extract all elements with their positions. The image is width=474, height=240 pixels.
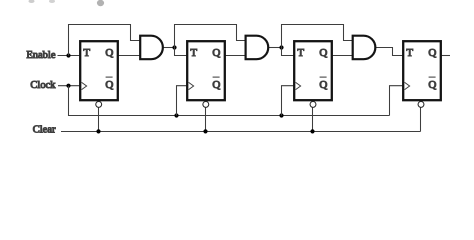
- AND gate G1: [140, 36, 163, 60]
- wire FF2 Q to G2 input B: [225, 55, 245, 57]
- wire Clear drop FF1: [98, 108, 100, 132]
- wire FF1 Q to G1 input B: [119, 55, 140, 57]
- node Clear junction FF1: [96, 129, 100, 133]
- svg-text:Q: Q: [428, 47, 436, 59]
- svg-text:T: T: [297, 47, 304, 59]
- wire FF4 Q output stub: [441, 55, 450, 57]
- svg-text:Q: Q: [105, 79, 113, 91]
- svg-text:T: T: [406, 47, 413, 59]
- T flip-flop FF1: [80, 41, 118, 107]
- node Clock bus junction FF2: [174, 113, 178, 117]
- wire Clock to FF1 clock pin: [58, 85, 80, 87]
- node G2 output junction: [279, 45, 283, 49]
- wire Clock bus drop: [69, 86, 390, 116]
- wire FF3 Q to G3 input B: [332, 55, 352, 57]
- svg-text:Q: Q: [212, 79, 220, 91]
- svg-text:Q: Q: [105, 47, 113, 59]
- wire G2 output: [268, 47, 281, 49]
- pin label Qbar FF2: [212, 77, 220, 91]
- wire Clear riser FF4: [420, 108, 422, 132]
- artifact smudge c: [97, 0, 104, 6]
- svg-text:Q: Q: [212, 47, 220, 59]
- artifact smudge b: [49, 0, 55, 3]
- wire Enable to FF1 pin T: [58, 55, 80, 57]
- wire Clear drop FF2: [205, 108, 207, 132]
- svg-text:Q: Q: [319, 47, 327, 59]
- svg-text:Clear: Clear: [33, 125, 56, 136]
- node Enable junction: [66, 53, 70, 57]
- AND gate G3: [353, 36, 376, 60]
- T flip-flop FF3: [294, 41, 332, 107]
- wire Clear drop FF3: [312, 108, 314, 132]
- wire Clear bus: [61, 131, 421, 133]
- node Clock bus junction FF3: [279, 113, 283, 117]
- svg-text:Enable: Enable: [26, 50, 55, 61]
- wire G3 output to FF4 pin T: [375, 48, 402, 56]
- AND gate G2: [246, 36, 269, 60]
- wire Enable over FF1 to G1 input A: [69, 25, 140, 56]
- svg-text:Q: Q: [319, 79, 327, 91]
- T flip-flop FF4: [403, 41, 441, 107]
- node Clock junction: [66, 84, 70, 88]
- pin label Qbar FF4: [428, 77, 436, 91]
- wire Clock riser to FF4 clock pin: [390, 86, 403, 116]
- T flip-flop FF2: [187, 41, 225, 107]
- pin label Qbar FF3: [319, 77, 327, 91]
- artifact smudge a: [29, 0, 35, 3]
- wire Clock riser to FF3 clock pin: [282, 86, 294, 116]
- svg-text:T: T: [190, 47, 197, 59]
- wire Clock riser to FF2 clock pin: [177, 86, 187, 116]
- wire G1 output over FF2 to G2 input A: [175, 25, 246, 48]
- node Clear junction FF3: [310, 129, 314, 133]
- node Clear junction FF2: [203, 129, 207, 133]
- svg-text:Q: Q: [428, 79, 436, 91]
- pin label Qbar FF1: [105, 77, 113, 91]
- wire G2 output over FF3 to G3 input A: [282, 25, 353, 48]
- wire G2 output to FF3 pin T: [282, 48, 294, 56]
- wire G1 output: [163, 47, 175, 49]
- svg-text:T: T: [83, 47, 90, 59]
- wire G1 output to FF2 pin T: [175, 48, 187, 56]
- node G1 output junction: [172, 45, 176, 49]
- svg-text:Clock: Clock: [30, 80, 56, 91]
